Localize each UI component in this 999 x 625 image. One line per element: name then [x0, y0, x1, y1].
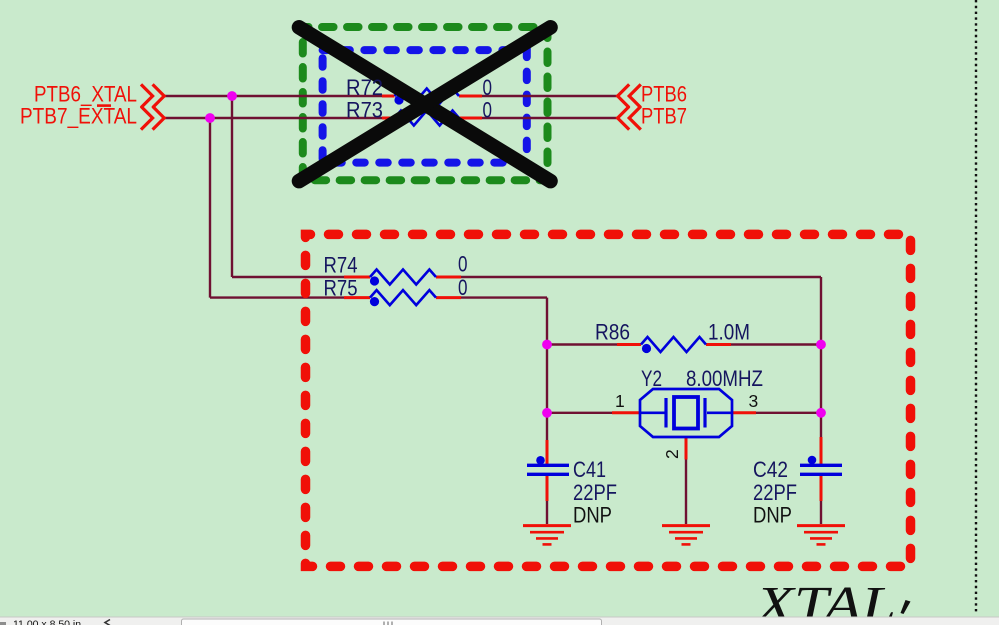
svg-text:PTB7: PTB7: [641, 104, 687, 129]
svg-text:0: 0: [458, 275, 468, 300]
svg-text:3: 3: [749, 391, 759, 411]
svg-text:8.00MHZ: 8.00MHZ: [686, 366, 763, 391]
svg-text:R75: R75: [324, 276, 358, 301]
svg-text:22PF: 22PF: [573, 480, 617, 505]
svg-text:1.0M: 1.0M: [708, 320, 750, 345]
svg-text:R73: R73: [346, 97, 383, 122]
svg-text:DNP: DNP: [753, 502, 792, 527]
svg-text:11.00 x 8.50 in: 11.00 x 8.50 in: [13, 619, 81, 625]
svg-text:22PF: 22PF: [753, 480, 797, 505]
svg-text:C41: C41: [573, 457, 606, 482]
svg-text:DNP: DNP: [573, 502, 612, 527]
svg-text:R72: R72: [346, 75, 383, 100]
svg-text:PTB7_EXTAL: PTB7_EXTAL: [20, 104, 137, 129]
svg-text:0: 0: [458, 252, 468, 277]
svg-text:C42: C42: [753, 457, 788, 482]
svg-text:0: 0: [483, 75, 493, 100]
svg-text:1: 1: [615, 391, 625, 411]
svg-text:0: 0: [483, 97, 493, 122]
svg-text:R74: R74: [324, 252, 358, 277]
svg-text:R86: R86: [595, 320, 630, 345]
svg-text:Y2: Y2: [641, 366, 662, 391]
svg-text:2: 2: [662, 449, 682, 459]
